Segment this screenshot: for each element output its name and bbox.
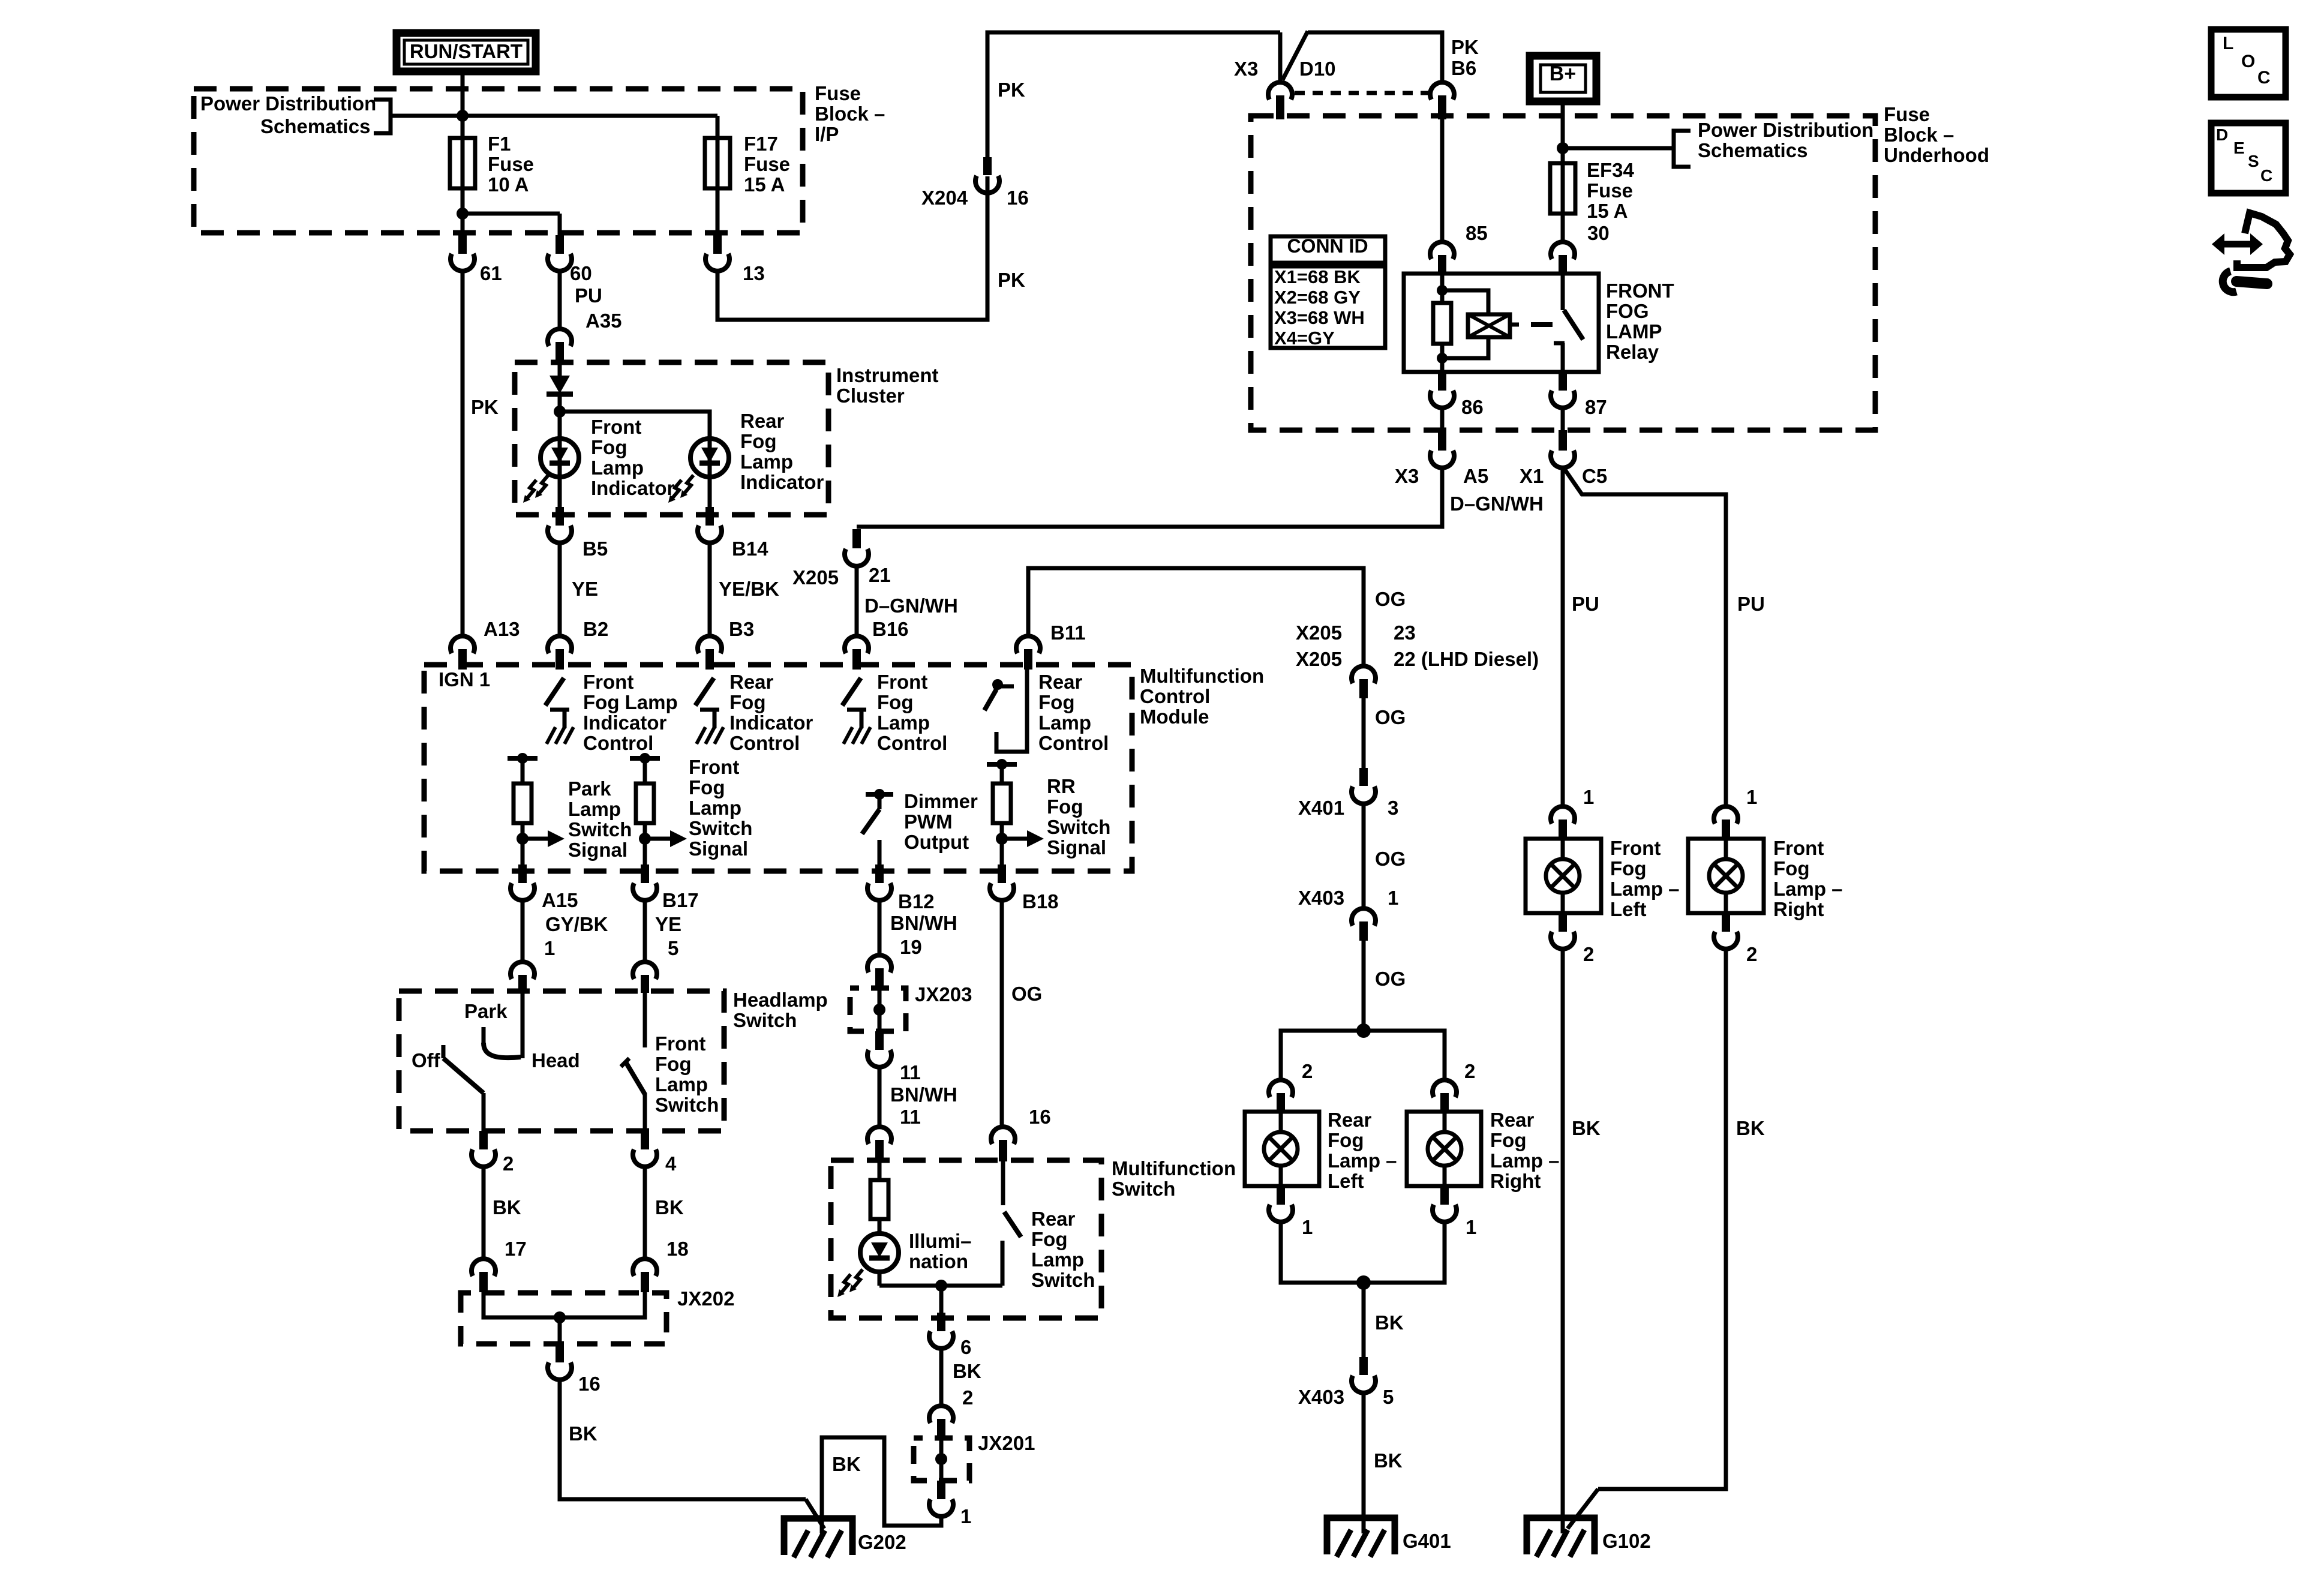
indicator rays rear xyxy=(684,475,693,493)
connector 19 into JX203 xyxy=(867,955,891,972)
ground G202 xyxy=(784,1518,852,1555)
svg-text:Signal: Signal xyxy=(1047,836,1106,858)
wire pin5 into switch xyxy=(643,991,647,1047)
wire BK front left to G102 xyxy=(1561,949,1565,1533)
wire diagonal into G202 xyxy=(806,1499,824,1529)
headlamp switch dashed box xyxy=(399,991,724,1131)
svg-text:87: 87 xyxy=(1585,396,1607,418)
svg-text:Rear: Rear xyxy=(1328,1109,1372,1131)
svg-text:BK: BK xyxy=(493,1196,521,1218)
connector X1 C5 xyxy=(1559,430,1567,451)
svg-text:Fog: Fog xyxy=(740,430,776,452)
svg-text:Indicator: Indicator xyxy=(591,477,675,499)
svg-text:Fog: Fog xyxy=(1610,857,1646,879)
junction block JX201 dashed box xyxy=(914,1438,969,1481)
internal ground (front fog ind ctrl) xyxy=(550,708,569,712)
svg-text:X3=68 WH: X3=68 WH xyxy=(1274,307,1365,328)
connector 87 xyxy=(1559,372,1567,391)
connector 1 into headlamp switch xyxy=(511,962,535,979)
junction node rear lamps tee xyxy=(1356,1023,1371,1038)
svg-text:D–GN/WH: D–GN/WH xyxy=(1450,493,1544,515)
svg-text:FOG: FOG xyxy=(1606,300,1649,322)
junction node below B+ xyxy=(1557,142,1569,154)
svg-text:2: 2 xyxy=(503,1152,514,1175)
relay switch wire from 30 xyxy=(1561,274,1565,310)
svg-text:B14: B14 xyxy=(732,538,768,560)
relay coil link stub xyxy=(1510,323,1519,327)
svg-text:Indicator: Indicator xyxy=(740,471,824,493)
wire illumination to bus xyxy=(878,1271,882,1286)
bracket Power Distribution Schematics (right) xyxy=(1674,131,1691,167)
svg-text:Lamp: Lamp xyxy=(591,457,644,479)
connector 17 into JX202 xyxy=(472,1259,496,1276)
svg-text:2: 2 xyxy=(1583,943,1594,965)
wire 6 BK to 2 xyxy=(939,1349,944,1407)
wire X3 D10 to B6 top rail xyxy=(1308,32,1442,82)
junction node rear lamps join xyxy=(1356,1275,1371,1290)
relay node 85 top xyxy=(1437,285,1448,296)
JX202 internal bus xyxy=(484,1292,645,1317)
LED rear fog lamp indicator xyxy=(690,439,729,477)
JX203 internal wire xyxy=(878,988,882,1031)
svg-text:Control: Control xyxy=(877,732,947,754)
wire B5 YE to B2 xyxy=(558,543,562,637)
svg-text:X401: X401 xyxy=(1298,797,1344,819)
svg-text:22 (LHD Diesel): 22 (LHD Diesel) xyxy=(1394,648,1539,670)
rear fog lamp switch contact stub xyxy=(1001,1241,1005,1286)
wire 16 BK to G202 xyxy=(560,1380,806,1499)
svg-text:X205: X205 xyxy=(792,566,839,589)
svg-text:Power Distribution: Power Distribution xyxy=(1698,119,1873,141)
connector 16 out of JX202 xyxy=(556,1344,564,1362)
connector B16 into module xyxy=(845,636,869,653)
wire 61 PK down to A13 xyxy=(461,270,465,637)
connector 6 out of multifunction switch xyxy=(937,1313,945,1331)
headlamp switch blade (park-head curve) xyxy=(484,1043,521,1058)
svg-text:15 A: 15 A xyxy=(744,173,785,196)
svg-text:I/P: I/P xyxy=(815,123,839,145)
junction node on rail at F1 xyxy=(457,110,469,122)
svg-text:JX201: JX201 xyxy=(978,1432,1035,1454)
multifunction control module dashed box xyxy=(424,665,1132,871)
indicator rays front xyxy=(539,475,548,493)
front fog lamp switch signal resistor column xyxy=(630,756,660,761)
svg-text:Lamp: Lamp xyxy=(689,797,741,819)
svg-text:Front: Front xyxy=(655,1032,705,1055)
svg-text:Switch: Switch xyxy=(568,818,632,840)
svg-text:Front: Front xyxy=(583,671,633,693)
svg-text:2: 2 xyxy=(962,1386,973,1409)
svg-text:Lamp –: Lamp – xyxy=(1773,878,1843,900)
svg-text:1: 1 xyxy=(544,937,555,959)
svg-text:Fog: Fog xyxy=(729,691,765,713)
park lamp switch signal resistor column xyxy=(508,756,538,761)
wire pin1 into switch xyxy=(521,991,525,1058)
svg-text:OG: OG xyxy=(1375,588,1406,610)
svg-text:86: 86 xyxy=(1461,396,1484,418)
svg-text:D10: D10 xyxy=(1299,58,1336,80)
svg-text:Park: Park xyxy=(568,778,611,800)
svg-text:Switch: Switch xyxy=(1031,1269,1095,1291)
wire 4 BK to 18 xyxy=(643,1167,647,1260)
svg-text:Lamp: Lamp xyxy=(740,451,793,473)
wire B12 BN/WH to JX203 xyxy=(878,900,882,956)
wire EF34 to relay 30 xyxy=(1561,214,1565,244)
svg-text:Cluster: Cluster xyxy=(836,385,905,407)
svg-text:YE: YE xyxy=(655,913,681,935)
wire 60 PU down to A35 xyxy=(558,270,562,331)
svg-text:Control: Control xyxy=(1140,685,1210,707)
icon LOC box xyxy=(2211,29,2286,97)
svg-text:OG: OG xyxy=(1375,848,1406,870)
svg-text:EF34: EF34 xyxy=(1587,159,1635,181)
svg-text:Fuse: Fuse xyxy=(815,82,861,104)
front fog lamp right box xyxy=(1688,839,1764,913)
svg-text:PWM: PWM xyxy=(904,810,953,833)
svg-text:OG: OG xyxy=(1011,983,1042,1005)
svg-text:A15: A15 xyxy=(542,889,578,911)
svg-text:BK: BK xyxy=(569,1422,597,1445)
instrument cluster dashed box xyxy=(515,362,828,515)
svg-text:Switch: Switch xyxy=(1112,1178,1175,1200)
svg-text:D–GN/WH: D–GN/WH xyxy=(864,595,958,617)
svg-text:X4=GY: X4=GY xyxy=(1274,328,1335,349)
bracket to Power Distribution Schematics (left) xyxy=(374,100,391,133)
fuse block I/P dashed box xyxy=(194,89,803,233)
svg-text:B5: B5 xyxy=(582,538,608,560)
svg-text:1: 1 xyxy=(960,1505,971,1527)
LED illumination xyxy=(860,1233,899,1272)
illumination resistor xyxy=(878,1160,882,1180)
wire diagonal into G102 xyxy=(1568,1489,1598,1529)
svg-text:X204: X204 xyxy=(921,187,968,209)
svg-text:B12: B12 xyxy=(898,890,935,912)
svg-text:C: C xyxy=(2257,68,2271,88)
relay mechanical dashed link xyxy=(1531,322,1553,327)
svg-text:Right: Right xyxy=(1773,898,1824,920)
wire C5 to front fog lamp left xyxy=(1561,468,1565,807)
junction node below F1 xyxy=(457,208,469,220)
svg-text:YE/BK: YE/BK xyxy=(719,578,779,600)
rear lamps join rails xyxy=(1281,1222,1445,1283)
junction node JX201 xyxy=(935,1453,947,1465)
svg-text:Lamp –: Lamp – xyxy=(1610,878,1680,900)
wire RUN/START down to F1 xyxy=(461,71,465,139)
icon DESC box xyxy=(2211,123,2286,193)
svg-text:Instrument: Instrument xyxy=(836,364,939,386)
svg-text:Indicator: Indicator xyxy=(583,712,667,734)
indicator rays illumination xyxy=(854,1269,863,1287)
power feed box RUN/START xyxy=(397,33,536,71)
svg-text:F1: F1 xyxy=(488,133,511,155)
rear fog lamp right box xyxy=(1407,1112,1481,1186)
svg-text:C5: C5 xyxy=(1582,465,1607,487)
svg-text:X2=68 GY: X2=68 GY xyxy=(1274,287,1361,308)
LED front fog lamp indicator xyxy=(541,439,579,477)
rear lamp tee rails xyxy=(1281,1031,1445,1081)
svg-text:Rear: Rear xyxy=(729,671,774,693)
svg-text:Headlamp: Headlamp xyxy=(733,989,828,1011)
svg-text:BK: BK xyxy=(1375,1311,1404,1334)
relay switch contact stub to 87 xyxy=(1561,343,1565,372)
svg-text:4: 4 xyxy=(665,1152,677,1175)
wire BK front right to G102 xyxy=(1598,949,1726,1489)
svg-text:Fuse: Fuse xyxy=(744,153,790,175)
junction node JX202 xyxy=(554,1311,566,1323)
fuse EF34 xyxy=(1550,163,1575,214)
wire OG to rear lamp tee xyxy=(1362,941,1366,1031)
svg-text:BK: BK xyxy=(953,1360,981,1382)
svg-text:Indicator: Indicator xyxy=(729,712,813,734)
connector 1 out of rear lamp right xyxy=(1440,1186,1449,1205)
relay switch blade xyxy=(1564,310,1583,340)
fuse F1 xyxy=(450,138,475,188)
svg-text:Left: Left xyxy=(1610,898,1647,920)
svg-text:Lamp: Lamp xyxy=(655,1073,708,1095)
multifunction switch bus xyxy=(879,1284,1002,1288)
svg-text:Multifunction: Multifunction xyxy=(1140,665,1264,687)
connector 1 out of rear lamp left xyxy=(1277,1186,1285,1205)
svg-text:B16: B16 xyxy=(872,618,909,640)
headlamp off contact stub xyxy=(442,1045,446,1058)
svg-text:G202: G202 xyxy=(858,1531,906,1553)
lamp front fog left xyxy=(1546,859,1580,893)
headlamp park contact stub xyxy=(482,1027,486,1044)
svg-text:Block –: Block – xyxy=(815,103,885,125)
wire B+ to EF34 xyxy=(1561,101,1565,164)
connector X204 pin 16 inline xyxy=(983,157,992,175)
svg-text:Fog: Fog xyxy=(1490,1129,1526,1151)
wire branch to connector 60 xyxy=(463,212,560,216)
svg-text:E: E xyxy=(2233,139,2245,157)
svg-text:11: 11 xyxy=(900,1106,921,1128)
connector B14 xyxy=(705,507,714,526)
svg-text:16: 16 xyxy=(1007,187,1029,209)
svg-text:A13: A13 xyxy=(484,618,520,640)
RR fog switch signal resistor column xyxy=(987,762,1017,767)
svg-text:B17: B17 xyxy=(662,889,699,911)
svg-text:Rear: Rear xyxy=(1490,1109,1535,1131)
svg-text:17: 17 xyxy=(505,1238,527,1260)
wire OG to X401 xyxy=(1362,698,1366,770)
fuse F17 feed wire xyxy=(716,116,720,139)
svg-text:G102: G102 xyxy=(1602,1530,1651,1552)
svg-text:X403: X403 xyxy=(1298,1386,1344,1408)
svg-text:BN/WH: BN/WH xyxy=(890,1083,957,1106)
svg-text:RUN/START: RUN/START xyxy=(410,40,523,62)
connector 5 into headlamp switch xyxy=(633,962,657,979)
internal ground (rear fog ind ctrl) xyxy=(700,708,719,712)
svg-text:19: 19 xyxy=(900,936,922,958)
junction node JX203 xyxy=(873,1004,885,1016)
icon wrench xyxy=(2236,281,2267,284)
svg-text:Lamp: Lamp xyxy=(1031,1248,1084,1271)
wire fog switch to pin 4 xyxy=(643,1093,647,1132)
svg-text:Underhood: Underhood xyxy=(1884,144,1989,166)
wire OG to X403 1 xyxy=(1362,804,1366,909)
svg-text:6: 6 xyxy=(960,1336,971,1358)
svg-text:Lamp: Lamp xyxy=(1038,712,1091,734)
switch rear fog lamp control pivot xyxy=(992,679,1003,690)
svg-text:BK: BK xyxy=(1374,1449,1403,1472)
connector body dashed line X3 to B6 xyxy=(1295,91,1429,95)
relay coil resistor xyxy=(1433,303,1451,344)
connector 13 xyxy=(713,235,722,254)
ground G401 xyxy=(1327,1518,1395,1554)
connector 1 out of JX201 xyxy=(937,1481,945,1499)
wire rear LED column xyxy=(708,440,712,509)
diode in instrument cluster xyxy=(550,376,570,394)
svg-text:16: 16 xyxy=(1029,1106,1051,1128)
wire front LED column xyxy=(558,412,562,509)
switch rear fog lamp control blade xyxy=(984,689,996,710)
svg-text:Front: Front xyxy=(877,671,927,693)
svg-text:Fog: Fog xyxy=(591,436,627,458)
svg-text:Control: Control xyxy=(729,732,800,754)
rear fog lamp switch wire from 16 xyxy=(1001,1160,1005,1205)
svg-text:Block –: Block – xyxy=(1884,124,1954,146)
svg-text:X1=68 BK: X1=68 BK xyxy=(1274,266,1361,287)
svg-text:Front: Front xyxy=(591,416,641,438)
relay bottom rail from coil xyxy=(1442,337,1488,358)
connector X403 5 inline xyxy=(1359,1357,1368,1375)
connector B2 into module xyxy=(548,636,572,653)
svg-text:Dimmer: Dimmer xyxy=(904,790,978,812)
connector 2 out of front lamp left xyxy=(1559,913,1567,932)
connector 1 into front fog lamp left xyxy=(1551,806,1575,824)
svg-text:G401: G401 xyxy=(1403,1530,1451,1552)
lamp rear fog right xyxy=(1428,1132,1461,1166)
connector 60 xyxy=(556,235,564,254)
svg-text:Front: Front xyxy=(689,756,739,778)
svg-text:Relay: Relay xyxy=(1606,341,1659,363)
wire bracket to F1/F17 rail xyxy=(391,114,717,118)
connector 2 (headlamp) xyxy=(479,1131,488,1149)
wire to power distribution bracket (right) xyxy=(1563,146,1674,151)
svg-text:O: O xyxy=(2241,52,2255,71)
svg-text:Head: Head xyxy=(532,1049,580,1071)
svg-text:Signal: Signal xyxy=(689,837,748,860)
svg-text:Fuse: Fuse xyxy=(488,153,534,175)
wire blade to pin 2 xyxy=(482,1093,486,1132)
svg-text:Fog: Fog xyxy=(1773,857,1809,879)
relay wire resistor to 86 xyxy=(1440,344,1445,372)
dimmer PWM output switch xyxy=(866,792,893,797)
wire 87 to X1 C5 xyxy=(1561,408,1565,433)
svg-text:Rear: Rear xyxy=(1038,671,1083,693)
connector X205 21 inline xyxy=(852,529,861,548)
connector B18 xyxy=(998,864,1006,883)
svg-text:1: 1 xyxy=(1746,786,1757,808)
svg-text:15 A: 15 A xyxy=(1587,200,1628,222)
svg-text:85: 85 xyxy=(1466,222,1488,244)
CONN ID table box xyxy=(1271,236,1385,263)
connector 85 into relay xyxy=(1430,242,1454,259)
svg-text:PK: PK xyxy=(998,79,1025,101)
relay coil X-box xyxy=(1468,314,1510,337)
wire X204 up and right to X3 D10 xyxy=(987,32,1280,157)
connector 18 into JX202 xyxy=(633,1259,657,1276)
svg-text:JX202: JX202 xyxy=(677,1287,734,1310)
connector X401 3 inline xyxy=(1359,768,1368,786)
svg-text:B11: B11 xyxy=(1050,622,1086,644)
front fog lamp switch tick xyxy=(621,1058,629,1067)
svg-text:PK: PK xyxy=(471,396,499,418)
svg-text:BK: BK xyxy=(655,1196,684,1218)
svg-text:BN/WH: BN/WH xyxy=(890,912,957,934)
connector 2 out of front lamp right xyxy=(1722,913,1730,932)
lamp rear fog left xyxy=(1264,1132,1298,1166)
svg-text:Lamp –: Lamp – xyxy=(1328,1149,1397,1172)
svg-text:Illumi–: Illumi– xyxy=(909,1230,972,1252)
svg-text:C: C xyxy=(2260,166,2272,185)
svg-text:OG: OG xyxy=(1375,968,1406,990)
svg-text:5: 5 xyxy=(668,937,678,959)
svg-text:10 A: 10 A xyxy=(488,173,529,196)
headlamp off blade xyxy=(443,1058,484,1093)
svg-text:Multifunction: Multifunction xyxy=(1112,1157,1236,1179)
svg-text:F17: F17 xyxy=(744,133,778,155)
svg-text:X3: X3 xyxy=(1395,465,1419,487)
switch front fog lamp control xyxy=(842,678,861,706)
connector B5 xyxy=(556,507,564,526)
switch rear fog lamp control contact and wire to B11 xyxy=(996,665,1027,752)
wire bus out to pin 6 xyxy=(939,1286,944,1318)
multifunction switch dashed box xyxy=(831,1160,1101,1318)
svg-text:1: 1 xyxy=(1466,1216,1476,1238)
svg-text:PU: PU xyxy=(575,284,602,307)
svg-text:Fog: Fog xyxy=(1047,795,1083,818)
connector X3 A5 xyxy=(1438,430,1446,451)
wire B11 up and over to X205 23 xyxy=(1028,568,1364,667)
svg-text:Fog: Fog xyxy=(877,691,913,713)
svg-text:B2: B2 xyxy=(583,618,608,640)
svg-text:60: 60 xyxy=(570,262,592,284)
svg-text:1: 1 xyxy=(1583,786,1594,808)
svg-text:Fuse: Fuse xyxy=(1884,103,1930,125)
svg-text:Schematics: Schematics xyxy=(260,115,370,137)
switch rear fog indicator control xyxy=(695,678,714,706)
wire F17 to connector 13 xyxy=(716,188,720,236)
svg-text:Right: Right xyxy=(1490,1170,1541,1192)
connector B12 xyxy=(875,864,884,883)
svg-text:BK: BK xyxy=(1572,1117,1601,1139)
wire X205 21 down to B16 xyxy=(855,566,859,637)
connector 30 into relay xyxy=(1551,242,1575,259)
svg-text:61: 61 xyxy=(480,262,502,284)
svg-text:Switch: Switch xyxy=(733,1009,797,1031)
svg-text:Switch: Switch xyxy=(655,1094,719,1116)
svg-text:PK: PK xyxy=(1451,36,1479,58)
svg-text:B18: B18 xyxy=(1022,890,1059,912)
svg-text:Control: Control xyxy=(1038,732,1109,754)
svg-text:18: 18 xyxy=(666,1238,689,1260)
relay top rail to coil xyxy=(1442,290,1488,316)
connector 1 into front fog lamp right xyxy=(1714,806,1738,824)
svg-text:RR: RR xyxy=(1047,775,1076,797)
connector 2 into rear fog lamp right xyxy=(1433,1080,1457,1097)
svg-text:PU: PU xyxy=(1737,593,1765,615)
connector 11 into multifunction switch xyxy=(867,1127,891,1144)
svg-text:GY/BK: GY/BK xyxy=(545,913,608,935)
svg-text:Rear: Rear xyxy=(1031,1208,1076,1230)
svg-text:Off: Off xyxy=(412,1049,441,1071)
svg-text:LAMP: LAMP xyxy=(1606,320,1662,343)
wire JX201 to G202 xyxy=(822,1437,941,1533)
svg-text:PK: PK xyxy=(998,269,1025,291)
svg-text:A35: A35 xyxy=(585,310,622,332)
wire B6 down to relay 85 xyxy=(1440,118,1445,244)
